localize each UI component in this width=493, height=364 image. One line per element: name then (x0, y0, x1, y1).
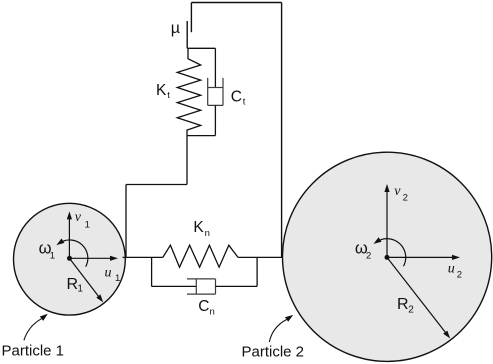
svg-text:v: v (75, 210, 82, 225)
arrow u2 (387, 256, 454, 258)
svg-text:n: n (210, 307, 215, 318)
svg-text:v: v (394, 184, 401, 199)
svg-text:Particle 2: Particle 2 (242, 344, 305, 361)
leader arrow to particle 1 (24, 319, 42, 341)
dashpot Ct rod lower (214, 105, 216, 135)
wire damper branch left (152, 285, 197, 287)
svg-text:C: C (231, 88, 242, 105)
friction slider mu plate A (190, 3, 192, 33)
wire bottom bar of tangential pair (187, 135, 215, 137)
svg-text:1: 1 (50, 251, 55, 262)
svg-text:R: R (397, 296, 409, 313)
rotation arc omega2 (377, 239, 406, 267)
rotation arc omega1 (60, 240, 88, 267)
dashpot Cn piston plate (195, 279, 197, 294)
svg-text:C: C (198, 298, 209, 315)
wire left drop to damper branch (151, 257, 153, 286)
wire contact axis right segment (238, 256, 282, 258)
svg-text:t: t (167, 90, 170, 101)
svg-text:1: 1 (115, 273, 120, 284)
dashpot Ct rod upper (214, 48, 216, 87)
arrow u1 (69, 257, 111, 259)
particle 2 center dot (385, 255, 390, 260)
dashpot Ct cylinder (208, 78, 223, 106)
wire horizontal to particle 1 side (126, 184, 187, 186)
svg-text:1: 1 (85, 219, 90, 230)
wire right drop to damper branch (256, 257, 258, 286)
arrow R2 (387, 257, 446, 333)
svg-text:t: t (243, 96, 246, 107)
wire contact axis left segment (123, 256, 163, 258)
wire down from tangential pair (186, 136, 188, 185)
wire top bar of tangential pair (187, 47, 215, 49)
wire top frame horizontal (191, 2, 281, 4)
spring Kt (177, 48, 200, 135)
particle 1 center dot (67, 256, 72, 261)
svg-text:u: u (105, 266, 112, 281)
svg-text:2: 2 (457, 270, 462, 281)
wire down to contact axis (125, 185, 127, 258)
spring Kn (163, 245, 238, 267)
arrow v2 (386, 191, 388, 258)
dashpot Ct piston plate (208, 87, 223, 89)
particle 1 circle (14, 203, 126, 315)
arrow R1 (69, 258, 99, 298)
svg-text:2: 2 (366, 250, 371, 261)
svg-text:Particle 1: Particle 1 (2, 343, 65, 360)
arrow v1 (68, 219, 70, 259)
leader arrow to particle 2 (269, 320, 286, 343)
svg-text:1: 1 (77, 284, 83, 295)
svg-text:K: K (156, 82, 167, 99)
wire right frame vertical (281, 3, 283, 258)
friction slider mu plate B (186, 21, 188, 48)
svg-text:R: R (67, 276, 79, 293)
svg-text:2: 2 (403, 193, 408, 204)
particle 2 circle (283, 152, 492, 361)
svg-text:2: 2 (408, 304, 414, 315)
svg-text:n: n (205, 228, 210, 239)
dashpot Cn cylinder (187, 279, 216, 294)
svg-text:µ: µ (171, 20, 180, 37)
wire damper branch right (216, 285, 258, 287)
svg-text:u: u (448, 261, 455, 276)
svg-text:K: K (193, 219, 204, 236)
